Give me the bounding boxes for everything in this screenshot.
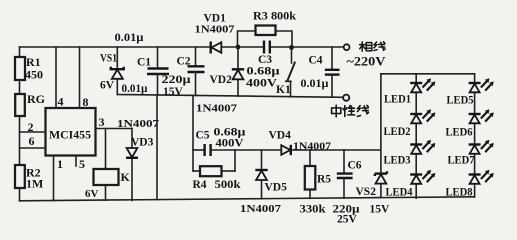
svg-text:R5: R5 [317,174,331,186]
svg-text:3: 3 [99,115,105,129]
capacitor C4 [301,47,340,97]
zener VS1 [100,47,124,95]
wire pin 2 [20,131,46,133]
svg-text:0.01µ: 0.01µ [122,83,148,95]
svg-text:15V: 15V [163,86,184,98]
svg-text:LED4: LED4 [386,185,413,199]
LED LED8 [446,170,494,199]
wire ground bottom rail [20,197,475,201]
capacitor C5 branch [193,96,246,172]
svg-text:VD5: VD5 [265,182,288,194]
svg-text:VD2: VD2 [210,74,233,86]
svg-text:400V: 400V [246,78,278,90]
svg-text:4: 4 [58,95,64,109]
wire pin 8 stub [79,47,81,108]
svg-text:8: 8 [83,95,89,109]
wire top rail left segment [20,46,211,48]
svg-text:1: 1 [57,157,63,171]
svg-text:C5: C5 [196,130,210,142]
svg-text:RG: RG [27,92,45,106]
LED LED6 [446,109,494,138]
capacitor C1 [137,47,169,95]
svg-text:C4: C4 [309,55,323,67]
wire top rail mid segment [222,46,264,48]
svg-text:LED2: LED2 [384,124,411,138]
wire pin 3 output [96,128,133,130]
LED LED2 [384,109,436,138]
node A junction dot [236,45,241,50]
LED LED5 [447,78,494,106]
resistor R4 branch [193,150,242,191]
svg-text:C2: C2 [177,56,191,68]
LED LED3 [384,140,436,167]
diode VD2 [196,47,244,115]
svg-text:25V: 25V [337,214,358,226]
svg-text:LED3: LED3 [384,153,411,167]
switch K1 [276,48,295,97]
svg-text:VD3: VD3 [131,137,154,149]
wire pin 4 stub [55,47,57,108]
resistor R3 with branch wires [238,11,297,48]
terminal phase line [344,44,350,50]
LED LED4 [386,170,436,199]
diode VD5 [240,150,287,215]
resistor R1 [15,55,43,82]
svg-text:1N4007: 1N4007 [240,203,282,215]
svg-text:LED7: LED7 [448,153,475,167]
svg-text:330k: 330k [300,204,327,216]
capacitor C6 [333,150,362,226]
resistor R5 [300,150,332,216]
wire relay K feed [105,129,107,201]
svg-text:500k: 500k [215,179,242,191]
svg-text:1N4007: 1N4007 [117,118,160,130]
wire mid DC rail [235,149,281,151]
wire C1 node to ground [156,95,158,200]
svg-text:450: 450 [25,68,43,82]
svg-text:R3 800k: R3 800k [253,11,297,23]
svg-text:5: 5 [79,157,85,171]
svg-text:6V: 6V [100,80,115,92]
node B junction dot [289,45,294,50]
wire left vertical [19,47,21,201]
svg-text:R4: R4 [193,179,207,191]
svg-text:0.01µ: 0.01µ [301,78,329,90]
net label neutral 中性线 [332,105,369,117]
svg-text:C3: C3 [258,54,272,66]
diode VD4 [269,130,332,156]
svg-text:400V: 400V [216,138,245,150]
LED LED1 [384,78,435,105]
wire LED box top rail [381,73,475,75]
capacitor C3 series [246,41,280,90]
resistor RG [15,92,45,116]
net label phase 相线 [360,42,386,52]
LED LED7 [448,140,494,167]
svg-text:LED6: LED6 [446,125,473,139]
resistor R2 [15,165,43,191]
svg-text:0.01µ: 0.01µ [115,30,144,44]
svg-text:C6: C6 [348,160,362,172]
wire LED box left vertical [380,74,382,198]
terminal neutral line [343,95,349,101]
svg-text:VS1: VS1 [100,53,117,65]
svg-text:0.68µ: 0.68µ [247,66,280,78]
svg-text:VD4: VD4 [269,130,292,142]
svg-text:VS2: VS2 [356,186,377,198]
wire pin 1 stub to ground [53,156,55,201]
zener VS2 [356,171,391,215]
svg-text:LED8: LED8 [446,185,473,199]
capacitor C2 [162,47,205,98]
relay coil K [94,169,131,185]
svg-text:6V: 6V [85,188,99,200]
op-amp U1 MCI455 timer box [46,108,96,156]
svg-text:1N4007: 1N4007 [293,141,332,153]
wire LED column 2 [474,74,476,197]
svg-text:2: 2 [28,120,34,134]
svg-text:1M: 1M [26,177,43,191]
wire top rail right segment [271,46,344,48]
svg-text:MCI455: MCI455 [49,128,91,142]
wire pin 5 stub [75,156,77,167]
diode VD1 [195,13,236,54]
svg-text:220µ: 220µ [162,74,191,86]
svg-text:K: K [121,170,131,184]
svg-text:15V: 15V [370,204,391,216]
wire neutral rail [117,95,343,98]
wire VD3 branch [131,129,133,201]
wire pin 6 [20,147,46,149]
svg-text:K1: K1 [276,84,291,96]
svg-text:1N4007: 1N4007 [195,24,236,36]
svg-text:~220V: ~220V [347,54,387,69]
svg-text:1N4007: 1N4007 [196,103,238,115]
diode VD3 [117,118,160,158]
svg-text:6: 6 [29,134,35,148]
wire LED column 1 [415,74,417,198]
svg-text:LED1: LED1 [384,92,411,106]
svg-text:LED5: LED5 [447,93,474,107]
svg-text:C1: C1 [137,57,151,69]
